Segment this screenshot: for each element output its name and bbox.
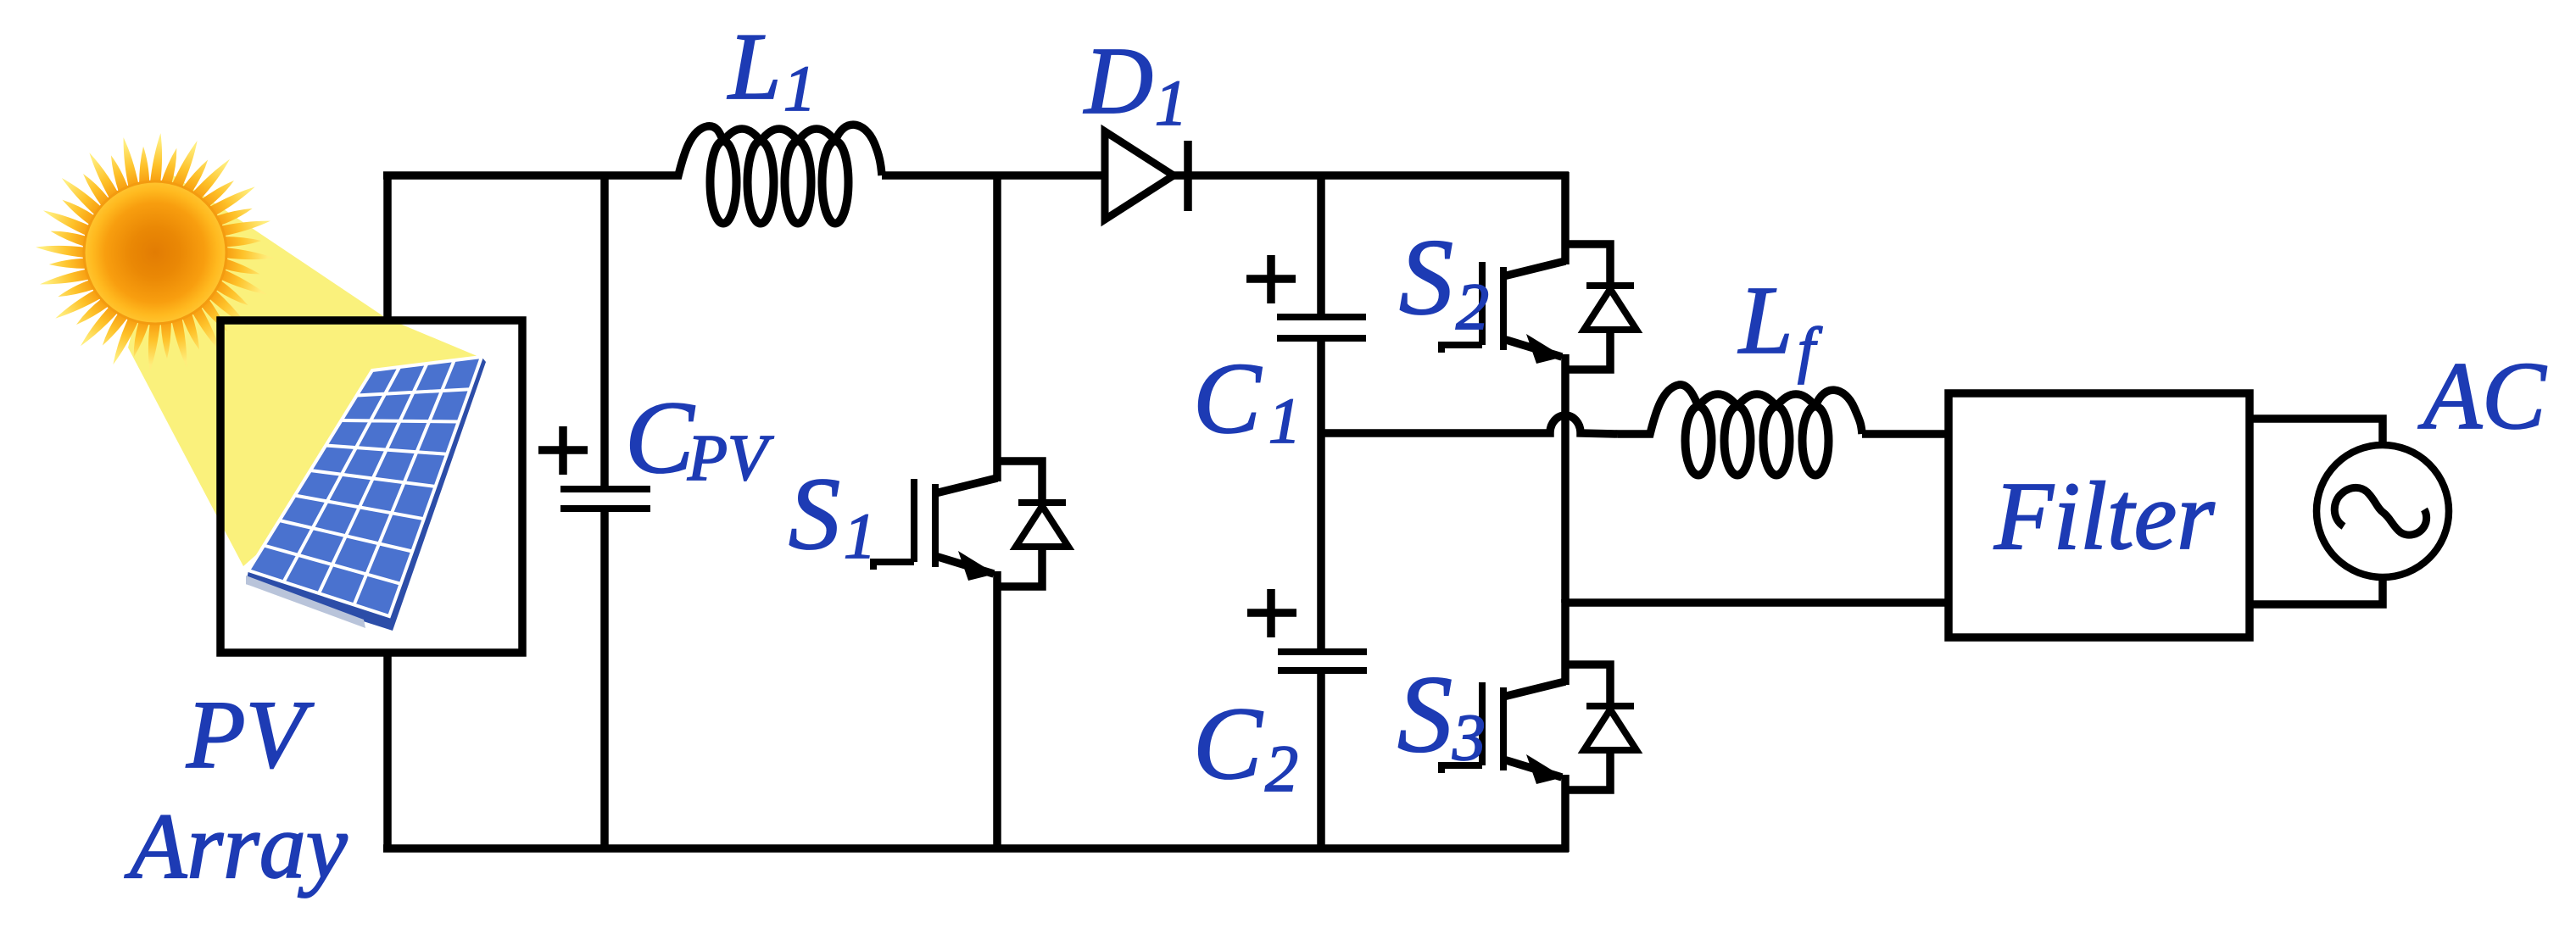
svg-text:Filter: Filter [1993,462,2215,570]
svg-text:L: L [727,14,781,120]
svg-text:1: 1 [783,53,816,125]
svg-text:3: 3 [1452,700,1486,774]
sun rays [36,133,275,372]
svg-text:C: C [625,381,695,495]
capacitor CPV [560,175,650,848]
svg-text:D: D [1083,29,1153,134]
plus sign C1 [1246,255,1296,303]
svg-text:S: S [1399,217,1453,337]
wire: PV bottom lead [383,653,392,848]
wire: PV top lead [383,175,392,320]
wire: bridge mid to filter [1565,598,1949,607]
svg-text:2: 2 [1456,270,1489,343]
svg-text:2: 2 [1265,731,1298,805]
inductor Lf [1618,385,1862,476]
svg-text:Array: Array [124,794,348,898]
svg-text:C: C [1193,687,1263,801]
PV panel 3d edge [246,357,486,631]
diode D1 [1105,131,1188,220]
svg-text:S: S [789,457,840,571]
svg-text:C: C [1193,342,1263,454]
wire: capacitor midpoint to Lf with hop over S2S3 leg [1321,415,1618,434]
sun core [84,181,226,324]
inductor L1 [646,125,882,223]
svg-text:1: 1 [1155,68,1187,139]
wire: top rail left segment [383,171,646,180]
filter box [1949,393,2250,637]
wire: bottom rail [383,844,1569,853]
AC source circle [2317,445,2449,577]
svg-text:PV: PV [687,421,774,494]
svg-text:L: L [1737,266,1793,374]
PV panel grid [264,360,470,605]
PV panel face [248,357,482,616]
svg-text:1: 1 [1268,386,1301,457]
sun light beam [128,175,479,566]
capacitor C1 [1277,175,1366,652]
wire: Lf to filter [1862,430,1949,438]
transistor S2 [1441,172,1636,603]
svg-text:S: S [1397,654,1452,776]
svg-text:1: 1 [844,501,876,572]
plus sign C2 [1247,589,1296,637]
wire: top rail mid segment [882,171,1105,180]
AC sine symbol [2334,487,2426,535]
transistor S1 [873,175,1068,848]
capacitor C2 [1278,652,1367,848]
transistor S3 [1441,599,1636,852]
plus sign CPV [538,426,588,475]
wire: filter to AC bottom [2250,576,2383,604]
wire: top rail right segment [1174,171,1569,180]
wire: filter to AC top [2250,419,2383,447]
svg-text:PV: PV [186,681,315,788]
PV array box [220,320,522,653]
svg-text:AC: AC [2417,343,2547,449]
